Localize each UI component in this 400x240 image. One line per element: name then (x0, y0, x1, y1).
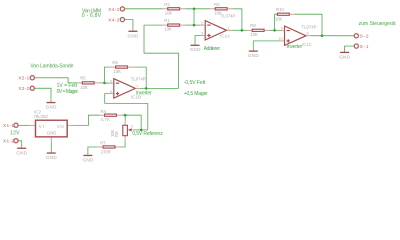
node junction wiper (140, 129, 143, 132)
svg-text:10K: 10K (250, 32, 258, 37)
svg-text:GND: GND (16, 150, 27, 155)
wire feedback up to R6 (104, 67, 110, 83)
wire IC2 gnd pin down (50, 142, 52, 153)
wire X1-1 to IC2 VI (18, 124, 29, 126)
ground under X4-2 (128, 31, 139, 38)
connector X2-2 (18, 86, 34, 92)
svg-text:0V = Mager: 0V = Mager (57, 89, 79, 95)
svg-text:GND: GND (46, 105, 57, 110)
resistor R7 (98, 140, 120, 154)
svg-text:GND: GND (248, 53, 259, 58)
wire S-1 to gnd (345, 46, 354, 52)
ground under R7 (82, 155, 93, 162)
svg-text:R3: R3 (214, 2, 220, 7)
svg-text:10K: 10K (114, 69, 122, 74)
voltage regulator IC2 (29, 120, 73, 142)
svg-text:S-2: S-2 (360, 34, 369, 40)
wire IC1C pin10 to gnd (253, 41, 280, 51)
svg-text:6: 6 (110, 79, 112, 83)
svg-text:4,7K: 4,7K (100, 117, 110, 122)
resistor R2 (162, 2, 184, 16)
svg-text:X1-2: X1-2 (3, 139, 14, 145)
svg-text:78L05Z: 78L05Z (33, 114, 48, 119)
resistor R4 (99, 109, 121, 122)
wire R7 left to gnd (88, 147, 98, 155)
node junction IC1A out (241, 29, 244, 32)
connector X1-1 (3, 123, 18, 129)
wire junction netA to netB (193, 9, 195, 25)
connector S-1 (354, 44, 369, 50)
svg-text:R5: R5 (80, 76, 86, 81)
svg-text:X4-2: X4-2 (108, 17, 119, 23)
svg-text:IC1A: IC1A (220, 33, 230, 38)
wire X1-2 to gnd (18, 141, 21, 148)
resistor R9 (247, 23, 270, 37)
op-amp IC1C (278, 25, 316, 48)
svg-text:GND: GND (82, 158, 93, 163)
svg-text:X2-2: X2-2 (18, 86, 29, 92)
svg-text:10K: 10K (275, 17, 283, 22)
node junction IC1B out (145, 87, 148, 90)
svg-text:X1-1: X1-1 (3, 123, 14, 129)
connector S-2 (354, 34, 369, 40)
resistor R6 (111, 60, 133, 74)
ground under X2-2 (46, 103, 57, 110)
svg-text:+0,5 Mager: +0,5 Mager (184, 91, 208, 97)
svg-text:X4-1: X4-1 (108, 7, 119, 13)
node junction netA (193, 7, 196, 10)
wire X2-1 to R5 (35, 78, 78, 83)
resistor R3 (210, 2, 232, 16)
resistor R10 (275, 7, 295, 22)
svg-text:2: 2 (201, 21, 203, 25)
svg-text:GND: GND (339, 54, 350, 59)
wire R9 to IC1C pin9 (269, 29, 280, 31)
potentiometer R8 (110, 121, 134, 141)
wire R3 feedback to IC1A output (232, 9, 242, 31)
wire pot wiper to junction (134, 129, 148, 131)
svg-text:Inverter: Inverter (287, 44, 303, 50)
wire pot bottom to R7 (120, 141, 125, 147)
svg-text:R8: R8 (114, 131, 119, 137)
svg-text:1: 1 (228, 26, 230, 30)
svg-text:9: 9 (281, 27, 283, 31)
label IC2 78L05Z (33, 109, 48, 118)
node junction netB (193, 24, 196, 27)
svg-text:S-1: S-1 (360, 44, 369, 50)
svg-text:VO: VO (57, 124, 64, 129)
op-amp IC1B (109, 76, 146, 99)
wire IC1A output to R9 (232, 29, 247, 31)
label Von LMM (82, 8, 102, 19)
connector X4-2 (108, 17, 124, 23)
svg-text:7: 7 (136, 84, 138, 88)
node junction R9 right (273, 29, 276, 32)
node junction R5 right (103, 82, 106, 85)
wire X4-2 to gnd (125, 20, 133, 32)
label 1V Fett 0V Mager (57, 83, 79, 95)
wire IC1B pin5 to reference (105, 94, 148, 130)
svg-text:TL074P: TL074P (302, 25, 317, 30)
wire R6 right down to IC1B output (133, 67, 147, 88)
wire R2 to R3 (185, 8, 210, 10)
svg-text:TL074P: TL074P (220, 14, 235, 19)
svg-text:-0,5V Fett: -0,5V Fett (184, 80, 206, 86)
svg-text:R6: R6 (112, 60, 118, 65)
wire IC2 VO to R4 (73, 115, 99, 125)
resistor R5 (77, 76, 99, 90)
connector X4-1 (108, 7, 124, 13)
node junction R4 pot top (124, 114, 127, 117)
node junction IC1C out (321, 34, 324, 37)
svg-text:zum Steuergerät: zum Steuergerät (359, 21, 397, 27)
connector X1-2 (3, 139, 18, 145)
ground under IC1A pin3 (190, 45, 201, 52)
wire IC1B output right (140, 87, 179, 89)
svg-text:10K: 10K (165, 11, 173, 16)
svg-text:GND: GND (128, 34, 139, 39)
svg-text:10K: 10K (164, 27, 172, 32)
svg-text:8: 8 (307, 32, 309, 36)
wire R1 to IC1A pin2 (185, 24, 200, 26)
ground under IC2 (46, 153, 57, 160)
svg-text:TL074P: TL074P (131, 76, 146, 81)
wire IC1A pin3 to gnd (195, 35, 200, 45)
svg-text:R4: R4 (100, 109, 106, 114)
svg-text:GND: GND (47, 130, 57, 135)
connector X2-1 (18, 76, 34, 82)
svg-text:R1: R1 (164, 18, 170, 23)
ground under S-1 (339, 52, 350, 59)
wire R10 to output junction (295, 14, 322, 36)
svg-text:R10: R10 (276, 7, 284, 12)
resistor R1 (162, 18, 184, 32)
svg-text:Von Lambda-Sonde: Von Lambda-Sonde (30, 64, 73, 70)
svg-text:VI: VI (39, 124, 45, 129)
svg-text:X2-1: X2-1 (18, 76, 29, 82)
svg-text:0,5V Referenz: 0,5V Referenz (132, 131, 163, 137)
svg-text:5: 5 (110, 90, 112, 94)
svg-text:R2: R2 (164, 2, 170, 7)
svg-text:3: 3 (201, 32, 203, 36)
wire X2-2 to gnd (35, 88, 51, 102)
wire R1 left from IC1B output (144, 25, 179, 88)
svg-text:R9: R9 (250, 23, 256, 28)
wire R5 to IC1B pin6 (99, 82, 109, 84)
svg-text:0 - 6,8V: 0 - 6,8V (82, 13, 102, 19)
ground under IC1C pin10 (248, 51, 259, 58)
svg-text:R7: R7 (100, 140, 106, 145)
svg-text:270R: 270R (101, 149, 111, 154)
svg-text:GND: GND (46, 155, 57, 160)
svg-text:IC1C: IC1C (302, 42, 312, 47)
svg-text:Addierer: Addierer (204, 46, 221, 52)
wire X4-1 to R2 (125, 8, 163, 10)
svg-text:Inverter: Inverter (136, 90, 152, 96)
svg-text:2: 2 (131, 124, 133, 128)
wire R4 right to pot corner (122, 115, 141, 130)
ground under X1-2 (16, 148, 27, 155)
wire pot top pin (124, 115, 126, 120)
svg-text:12V: 12V (10, 130, 20, 136)
op-amp IC1A (200, 14, 236, 41)
svg-text:GND: GND (190, 47, 201, 52)
wire junction up to R10 (275, 14, 278, 30)
wire IC1C output to S-2 (311, 35, 355, 37)
svg-text:10K: 10K (80, 85, 88, 90)
